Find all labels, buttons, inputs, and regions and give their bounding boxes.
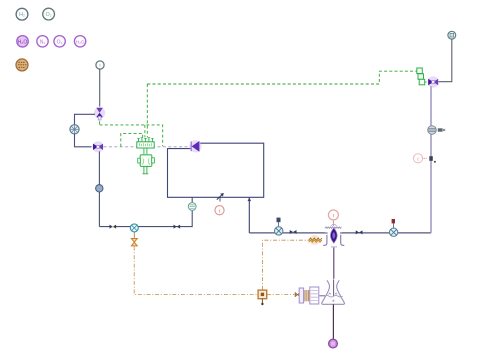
medium badge H2O (purple legend circle 4)	[74, 36, 85, 47]
wire V1 to mixer X1	[75, 114, 96, 124]
control dash network (green)	[99, 121, 101, 125]
check valve CV1	[110, 225, 117, 229]
condensate drop line	[333, 248, 335, 279]
bus connector BUS1	[258, 290, 267, 305]
heater H1 (striped)	[299, 287, 319, 304]
wire SOU1 to valve V1	[99, 69, 101, 106]
pump P1 (purple cone)	[189, 140, 201, 152]
volume node VN1 (filled circle on pipe)	[96, 185, 103, 192]
bus dash network (orange)	[134, 247, 258, 295]
tan valve TB1	[295, 292, 300, 297]
medium badge H2O filled (purple legend circle 1)	[16, 35, 29, 48]
svg-text:N₂: N₂	[40, 39, 46, 45]
wire bottom-left run	[99, 197, 192, 226]
burner U1 (purple brace component)	[323, 224, 344, 249]
sensor G1 (gray gauge with plug)	[428, 126, 446, 135]
port M1 (magenta)	[329, 339, 338, 348]
valve V1 (purple angle valve)	[94, 107, 105, 120]
svg-text:O₂: O₂	[57, 39, 63, 45]
check valve CV4	[356, 230, 363, 234]
check valve CV2	[174, 225, 181, 229]
mixer X1 (circle with cross)	[70, 125, 79, 134]
loop pipe rectangle	[168, 143, 264, 197]
valve V2 (purple valve)	[92, 141, 103, 152]
valve V3 (purple valve top-right)	[427, 76, 438, 87]
temperature tap TT1	[424, 156, 436, 163]
wire X1 to valve V2	[75, 134, 92, 147]
ambient sensor PC0 (red circle below loop)	[215, 206, 224, 215]
source SOU1 (top-left boundary)	[96, 61, 104, 69]
wire SOU2 to valve V3	[439, 39, 452, 81]
orange relief valve OV1	[131, 232, 137, 246]
svg-text:O₂: O₂	[46, 12, 52, 18]
fan junction J1 (teal circle with X)	[130, 224, 138, 232]
wire loop to bottom main line	[248, 198, 250, 233]
flask F1 (erlenmeyer)	[322, 280, 345, 305]
wire right riser	[430, 86, 432, 233]
flow direction arrow on loop bottom	[217, 193, 224, 202]
medium badge O2 (gray legend circle 2)	[43, 8, 55, 20]
bottom main pipe	[249, 232, 431, 234]
check valve CV3	[290, 230, 297, 234]
sensor S2 (teal gauge below loop)	[188, 203, 196, 211]
medium badge N2 (purple legend circle 2)	[37, 36, 48, 47]
control blocks K1 K2 K3 (green)	[417, 68, 428, 85]
wire V2 down to junction J0	[98, 151, 100, 226]
sensor S4 (steel circle with X and cap)	[275, 218, 283, 235]
svg-text:H₂O: H₂O	[18, 39, 28, 45]
medium badge fuel (brown legend circle)	[16, 59, 28, 71]
pink sensor PC1	[413, 154, 422, 163]
controller GB (green header + valve body)	[137, 138, 155, 174]
medium badge H2 (gray legend circle 1)	[16, 8, 28, 20]
source SOU2 (top-right boundary)	[448, 31, 456, 39]
sensor S5 (steel circle with red cap)	[389, 219, 397, 237]
svg-text:H₂O: H₂O	[76, 39, 85, 44]
wire flask to port M1	[332, 304, 334, 339]
pink sensor PC2 above burner	[328, 210, 338, 226]
orange flame valve OV2	[309, 235, 322, 245]
wire heater to flask	[319, 295, 325, 297]
svg-text:H₂: H₂	[19, 12, 25, 18]
actuator dash valve V2 to pump P1	[104, 146, 191, 148]
medium badge O2 (purple legend circle 3)	[54, 36, 65, 47]
